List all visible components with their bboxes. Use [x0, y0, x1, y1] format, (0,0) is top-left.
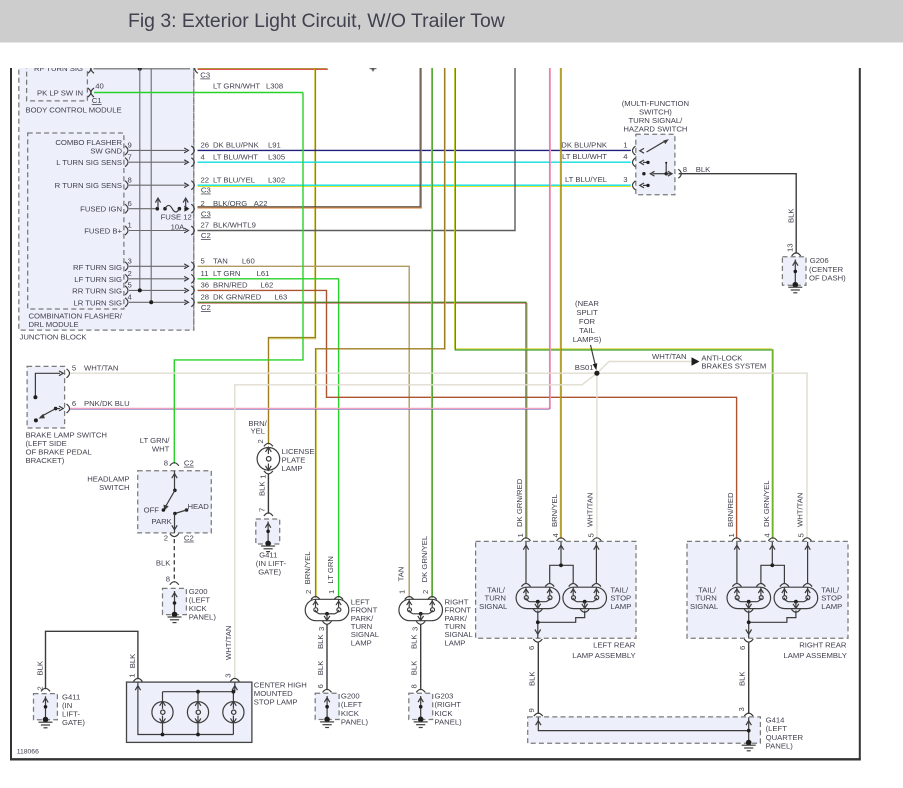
node BS01 — [575, 363, 600, 376]
svg-text:SWITCH: SWITCH — [99, 483, 129, 492]
svg-text:8: 8 — [166, 574, 170, 583]
svg-text:1: 1 — [516, 533, 525, 537]
wire WHT/TAN BS01 down to left rear pin 5 — [596, 373, 598, 539]
svg-text:2: 2 — [421, 590, 430, 594]
svg-text:DK BLU/PNK: DK BLU/PNK — [213, 141, 260, 150]
svg-text:9: 9 — [527, 708, 536, 712]
svg-text:6: 6 — [128, 199, 132, 208]
svg-text:BRN/YEL: BRN/YEL — [550, 493, 559, 527]
wire BLK left front to G200 — [326, 624, 328, 690]
svg-text:(NEAR: (NEAR — [575, 299, 599, 308]
svg-text:FUSED IGN: FUSED IGN — [80, 205, 122, 214]
MFS pin 1 — [561, 140, 635, 155]
black vertical wire to LR TURN SIG — [150, 68, 152, 302]
anti-lock brakes system arrow + labels — [652, 352, 766, 370]
svg-text:DK GRN/RED: DK GRN/RED — [213, 292, 262, 301]
svg-text:LT BLU/WHT: LT BLU/WHT — [562, 152, 607, 161]
wire BRN/YEL license: down, left, down to license lamp — [269, 68, 316, 444]
svg-text:BODY CONTROL MODULE: BODY CONTROL MODULE — [26, 106, 122, 115]
wire BLK right front to G203 — [420, 624, 422, 690]
svg-text:BLK: BLK — [527, 671, 536, 686]
BCM PK LP SW IN pin 40 connector — [88, 82, 104, 106]
svg-text:DRL MODULE: DRL MODULE — [29, 320, 79, 329]
svg-text:28: 28 — [201, 292, 210, 301]
svg-text:3: 3 — [411, 627, 420, 631]
svg-text:PANEL): PANEL) — [189, 613, 217, 622]
svg-text:C2: C2 — [184, 459, 194, 468]
wire DK GRN/YEL to right front lamp pin 2: from top straight down — [430, 50, 433, 598]
svg-text:4: 4 — [623, 152, 628, 161]
svg-text:8: 8 — [164, 459, 168, 468]
svg-text:DK BLU/PNK: DK BLU/PNK — [561, 140, 608, 149]
svg-text:BLK: BLK — [128, 653, 137, 668]
svg-text:WHT/TAN: WHT/TAN — [586, 493, 595, 527]
lamp TAIL/TURN SIGNAL — [522, 584, 531, 587]
svg-text:BLK: BLK — [156, 559, 171, 568]
svg-text:R TURN SIG SENS: R TURN SIG SENS — [55, 181, 122, 190]
svg-text:BS01: BS01 — [575, 363, 594, 372]
body control module box — [26, 50, 122, 115]
svg-text:LAMP: LAMP — [351, 638, 372, 647]
svg-text:3: 3 — [317, 627, 326, 631]
svg-text:6: 6 — [316, 684, 325, 688]
svg-text:10A: 10A — [171, 222, 186, 231]
combo left pin numbers — [128, 141, 133, 302]
svg-text:BRAKES SYSTEM: BRAKES SYSTEM — [701, 362, 766, 371]
svg-text:WHT/TAN: WHT/TAN — [652, 352, 686, 361]
svg-text:QUARTER: QUARTER — [766, 733, 804, 742]
svg-text:FUSED B+: FUSED B+ — [84, 227, 122, 236]
svg-text:4: 4 — [201, 152, 206, 161]
svg-text:GATE): GATE) — [258, 568, 281, 577]
svg-text:C1: C1 — [92, 96, 102, 105]
svg-text:BLK: BLK — [738, 671, 747, 686]
svg-text:118066: 118066 — [17, 749, 39, 756]
svg-text:SIGNAL: SIGNAL — [690, 602, 719, 611]
svg-text:RF TURN SIG: RF TURN SIG — [73, 263, 122, 272]
svg-text:3: 3 — [128, 256, 132, 265]
ground G200 (left kick panel) under headlamp switch — [163, 587, 217, 623]
svg-text:WHT/TAN: WHT/TAN — [84, 364, 118, 373]
svg-text:4: 4 — [763, 533, 772, 538]
wire BLK dashed headlamp to G200 — [173, 539, 175, 583]
wire BRN/YEL left rear pin 4: from top straight down — [559, 50, 562, 539]
combination flasher / DRL module box — [28, 133, 124, 329]
svg-text:PK LP SW IN: PK LP SW IN — [37, 89, 83, 98]
wire LT GRN/WHT L308 horizontal — [94, 92, 303, 94]
JB connector column C3/C2 dashed — [193, 50, 195, 330]
svg-text:LT BLU/WHT: LT BLU/WHT — [213, 152, 258, 161]
svg-text:3: 3 — [623, 175, 627, 184]
svg-text:G206: G206 — [810, 256, 829, 265]
MFS internal switch — [640, 139, 672, 188]
svg-text:LAMP: LAMP — [445, 638, 466, 647]
svg-text:TAIL: TAIL — [579, 326, 595, 335]
svg-text:LAMP: LAMP — [610, 602, 631, 611]
svg-text:9: 9 — [128, 141, 132, 150]
svg-text:BLK: BLK — [316, 660, 325, 675]
svg-text:LT GRN/WHT: LT GRN/WHT — [213, 82, 260, 91]
svg-text:YEL: YEL — [250, 426, 265, 435]
svg-text:GATE): GATE) — [62, 718, 85, 727]
node on RF wire — [138, 67, 142, 71]
wire LT BLU/WHT L305 — [198, 161, 631, 163]
wire BRN/YEL+RED pair from C3 top right — [195, 64, 328, 73]
svg-text:26: 26 — [201, 141, 210, 150]
svg-text:6: 6 — [72, 399, 76, 408]
svg-text:(LEFT: (LEFT — [766, 724, 788, 733]
ground G206 (center of dash) — [782, 256, 846, 293]
svg-text:L302: L302 — [268, 175, 285, 184]
svg-text:LEFT REAR: LEFT REAR — [593, 641, 636, 650]
wire BLK from G411 up and over to stop lamp pin 1 — [46, 631, 138, 689]
svg-text:WHT: WHT — [152, 445, 170, 454]
svg-text:5: 5 — [72, 364, 76, 373]
svg-text:C2: C2 — [184, 534, 194, 543]
BCM RF TURN SIG wire — [88, 64, 190, 73]
wire BRN/RED L62: right, down, right, down to right rear pin 1 — [198, 290, 737, 539]
svg-text:7: 7 — [128, 152, 132, 161]
fuse 12 10A — [155, 198, 191, 231]
svg-text:C2: C2 — [201, 303, 211, 312]
svg-text:DK GRN/RED: DK GRN/RED — [515, 478, 524, 527]
svg-text:C3: C3 — [201, 209, 211, 218]
wire TAN L60: right then down to right front lamp pin 1 — [198, 266, 410, 597]
svg-text:WHT/TAN: WHT/TAN — [224, 626, 233, 660]
svg-text:LT GRN: LT GRN — [213, 269, 240, 278]
cut wire stub at top — [370, 68, 377, 72]
svg-text:BLK: BLK — [257, 481, 266, 496]
svg-text:C2: C2 — [201, 231, 211, 240]
svg-text:L63: L63 — [274, 292, 287, 301]
svg-text:4: 4 — [551, 533, 560, 538]
svg-text:BLK: BLK — [35, 660, 44, 675]
svg-text:1: 1 — [398, 590, 407, 594]
svg-text:L61: L61 — [257, 269, 270, 278]
svg-text:HAZARD SWITCH: HAZARD SWITCH — [623, 124, 687, 133]
svg-text:5: 5 — [797, 533, 806, 537]
wire LT BLU/YEL L302 — [198, 185, 631, 186]
svg-text:5: 5 — [128, 281, 132, 290]
svg-text:2: 2 — [304, 590, 313, 594]
svg-text:BLK: BLK — [316, 634, 325, 649]
svg-text:27: 27 — [201, 221, 210, 230]
svg-text:WHT/TAN: WHT/TAN — [796, 493, 805, 527]
ground G203 (right kick panel) — [409, 692, 462, 728]
lamp TAIL/STOP LAMP — [569, 584, 578, 587]
svg-text:1: 1 — [623, 140, 627, 149]
ground G411 (in lift-gate) under license lamp — [256, 519, 287, 577]
wire PNK/DK BLU: from brake switch right then up to top — [70, 50, 550, 408]
svg-text:BRN/RED: BRN/RED — [726, 492, 735, 527]
svg-text:11: 11 — [201, 269, 209, 278]
svg-text:FUSE 12: FUSE 12 — [161, 212, 192, 221]
svg-text:6: 6 — [527, 646, 536, 650]
svg-text:PNK/DK BLU: PNK/DK BLU — [84, 399, 130, 408]
svg-text:L91: L91 — [268, 141, 281, 150]
svg-text:BRACKET): BRACKET) — [26, 456, 65, 465]
svg-text:L62: L62 — [261, 281, 274, 290]
title bar — [0, 0, 903, 43]
svg-text:Fig 3: Exterior Light Circuit,: Fig 3: Exterior Light Circuit, W/O Trail… — [128, 10, 506, 32]
svg-text:L60: L60 — [242, 256, 255, 265]
svg-text:BRN/YEL: BRN/YEL — [303, 551, 312, 585]
svg-text:SW GND: SW GND — [90, 146, 122, 155]
svg-text:OF DASH): OF DASH) — [809, 273, 846, 282]
svg-text:3: 3 — [224, 674, 233, 678]
internal feeds — [525, 542, 527, 584]
svg-text:PARK: PARK — [151, 517, 172, 526]
svg-text:SIGNAL: SIGNAL — [479, 602, 508, 611]
svg-text:4: 4 — [128, 292, 133, 301]
svg-text:L308: L308 — [266, 82, 283, 91]
svg-text:L9: L9 — [247, 221, 256, 230]
(NEAR SPLIT FOR TAIL LAMPS) note with arrow — [573, 299, 602, 370]
svg-text:1: 1 — [258, 475, 267, 479]
svg-text:PANEL): PANEL) — [766, 742, 794, 751]
svg-text:PANEL): PANEL) — [341, 717, 369, 726]
svg-text:LT BLU/YEL: LT BLU/YEL — [213, 175, 256, 184]
svg-text:1: 1 — [128, 674, 137, 678]
svg-text:L305: L305 — [268, 152, 285, 161]
bottom join — [538, 611, 585, 634]
svg-text:22: 22 — [201, 175, 210, 184]
MFS pin 8 and BLK wire to G206 — [678, 165, 800, 256]
svg-text:RR TURN SIG: RR TURN SIG — [72, 287, 122, 296]
svg-text:BLK/WHT: BLK/WHT — [213, 221, 247, 230]
svg-text:LAMP ASSEMBLY: LAMP ASSEMBLY — [784, 651, 847, 660]
svg-text:40: 40 — [95, 82, 104, 91]
wire WHT/TAN BS01 diagonal to anti-lock arrow — [597, 362, 698, 374]
svg-text:1: 1 — [727, 533, 736, 537]
svg-text:3: 3 — [737, 707, 746, 711]
svg-text:1: 1 — [128, 221, 132, 230]
junction dots on combo rows — [138, 288, 142, 292]
svg-text:5: 5 — [201, 256, 205, 265]
svg-text:TAN: TAN — [397, 567, 406, 582]
svg-text:LT GRN: LT GRN — [326, 556, 335, 583]
svg-text:8: 8 — [683, 165, 687, 174]
svg-text:2: 2 — [256, 439, 265, 443]
svg-text:BLK: BLK — [410, 634, 419, 649]
combo pin rows: connectors at combo box edge and JB edge — [125, 146, 194, 307]
svg-text:1: 1 — [327, 590, 336, 594]
svg-text:LAMP ASSEMBLY: LAMP ASSEMBLY — [572, 651, 635, 660]
svg-text:LT BLU/YEL: LT BLU/YEL — [565, 175, 608, 184]
svg-text:STOP LAMP: STOP LAMP — [254, 698, 298, 707]
wire LT GRN/WHT: down, left, down to headlamp switch — [174, 93, 303, 464]
right side pin numbers and wire labels — [201, 141, 288, 313]
wire DK GRN/RED L63: right, down to left rear pin 1 — [198, 302, 527, 539]
wire LT GRN L61: right then down to left front lamp pin 1 — [198, 279, 339, 598]
svg-text:OFF: OFF — [144, 505, 160, 514]
svg-text:G414: G414 — [766, 716, 786, 725]
svg-text:2: 2 — [128, 269, 132, 278]
ground G414 (left quarter panel) — [528, 716, 804, 751]
svg-text:7: 7 — [257, 508, 266, 512]
wire BLK/ORG A22: right then up to top — [198, 50, 422, 208]
top clip band — [0, 43, 903, 69]
svg-text:L TURN SIG SENS: L TURN SIG SENS — [56, 158, 122, 167]
svg-text:BLK: BLK — [786, 208, 795, 223]
wire DK BLU/PNK L91 — [198, 149, 631, 151]
svg-text:LAMP: LAMP — [821, 602, 842, 611]
svg-text:36: 36 — [201, 281, 210, 290]
svg-text:JUNCTION BLOCK: JUNCTION BLOCK — [20, 333, 88, 342]
svg-text:PANEL): PANEL) — [435, 717, 463, 726]
ground G411 (in lift-gate) bottom left — [34, 692, 86, 727]
svg-text:DK GRN/YEL: DK GRN/YEL — [762, 480, 771, 527]
wire DK GRN/YEL rear: from top down, right, down to right rear pin 4 — [454, 50, 772, 539]
svg-text:BLK: BLK — [410, 660, 419, 675]
svg-text:RIGHT REAR: RIGHT REAR — [799, 641, 847, 650]
svg-text:13: 13 — [785, 243, 794, 252]
wire BRN/YEL front: from top down, left, down to left front pin 2 — [316, 50, 445, 598]
svg-text:BRN/RED: BRN/RED — [213, 281, 248, 290]
svg-text:COMBINATION FLASHER/: COMBINATION FLASHER/ — [29, 312, 123, 321]
svg-text:6: 6 — [738, 646, 747, 650]
svg-text:C3: C3 — [201, 186, 211, 195]
svg-text:LF TURN SIG: LF TURN SIG — [74, 275, 122, 284]
ground G200 (left kick panel) under left front lamp — [315, 692, 368, 728]
svg-text:LAMPS): LAMPS) — [573, 335, 602, 344]
svg-text:8: 8 — [128, 175, 132, 184]
black vertical wire to RR TURN SIG — [139, 69, 141, 291]
svg-text:HEAD: HEAD — [188, 502, 210, 511]
wire WHT/TAN BS01 to right rear pin 5 — [597, 373, 807, 539]
svg-text:5: 5 — [586, 533, 595, 537]
MFS pin 3 — [623, 175, 635, 190]
junction block outer box — [19, 50, 194, 342]
wire BLK/WHT L9: right then up to top — [198, 50, 516, 231]
svg-text:SPLIT: SPLIT — [576, 308, 598, 317]
svg-text:LAMP: LAMP — [282, 464, 303, 473]
svg-text:BLK: BLK — [696, 165, 711, 174]
svg-text:C3: C3 — [200, 71, 210, 80]
wire WHT/TAN center stop lamp branch: up from lamp, right, diagonal to BS01 — [235, 373, 597, 679]
svg-text:FOR: FOR — [579, 317, 596, 326]
svg-text:8: 8 — [410, 684, 419, 688]
svg-text:TAN: TAN — [213, 256, 228, 265]
svg-text:2: 2 — [164, 534, 168, 543]
wire WHT/TAN from brake switch to BS01 — [70, 372, 597, 374]
svg-text:DK GRN/YEL: DK GRN/YEL — [420, 535, 429, 582]
MFS pin 4 — [623, 152, 635, 167]
svg-text:LR TURN SIG: LR TURN SIG — [73, 298, 122, 307]
